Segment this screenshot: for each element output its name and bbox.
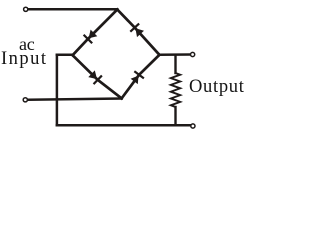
terminal: output bottom — [191, 124, 195, 128]
label ac — [19, 35, 34, 53]
wire: bottom ac lead — [28, 99, 121, 100]
wire: bridge arm top-right — [117, 10, 159, 55]
wire: right node to output terminal — [159, 53, 190, 56]
diode D3 lower-left arm — [88, 70, 97, 79]
wire: bridge arm left-bottom — [73, 55, 122, 98]
diode D4 lower-right arm — [131, 76, 139, 85]
wire: left node to lower-left corner — [57, 53, 73, 56]
terminal: ac input top — [24, 7, 28, 11]
resistor R load: bottom lead — [174, 107, 176, 125]
terminal: ac input bottom — [23, 98, 27, 102]
diode D1 upper-left arm — [89, 30, 98, 39]
diode D2 upper-right arm — [135, 28, 144, 37]
wire: bridge arm left-top — [73, 10, 118, 56]
label Output — [189, 78, 245, 97]
resistor R load: top lead — [174, 55, 176, 73]
label Input — [1, 50, 48, 69]
wire: top ac lead — [29, 8, 118, 11]
wire: bottom output rail — [57, 124, 190, 127]
terminal: output top — [191, 52, 195, 56]
wire: bridge arm bottom-right — [122, 55, 160, 99]
resistor R load: zigzag body — [171, 73, 180, 107]
